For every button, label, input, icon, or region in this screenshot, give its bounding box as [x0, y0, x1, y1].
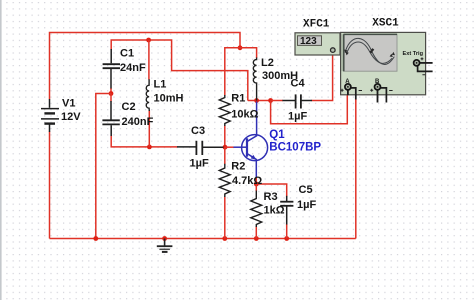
- svg-text:1µF: 1µF: [190, 158, 209, 170]
- XFC1 terminal: [331, 48, 336, 53]
- wire: base node down to R2 top: [224, 147, 226, 164]
- svg-text:Q1: Q1: [269, 129, 285, 141]
- svg-text:XSC1: XSC1: [372, 18, 399, 30]
- wire: Vcc junction to R1 top: [225, 48, 240, 96]
- node: C4 tap junction: [268, 98, 273, 103]
- svg-text:C1: C1: [120, 48, 134, 60]
- XSC1 ext trig plus/minus marks: [421, 57, 426, 74]
- node: C5 at rail: [284, 236, 289, 241]
- svg-text:24nF: 24nF: [120, 62, 146, 74]
- wire: battery positive up to Vcc top rail and down to junction: [50, 33, 241, 100]
- svg-text:4.7kΩ: 4.7kΩ: [232, 175, 262, 187]
- wire: battery negative to rail: [49, 132, 51, 239]
- wire: tap junction to ground rail: [96, 94, 111, 239]
- XSC1 terminal A pin stub: [347, 89, 349, 95]
- node: base junction: [223, 145, 228, 150]
- XSC1 terminal B pin stub: [377, 89, 379, 103]
- XSC1 screen: [344, 34, 397, 71]
- svg-text:R3: R3: [264, 191, 278, 203]
- svg-text:C3: C3: [191, 125, 205, 137]
- wire: ground rail: [50, 238, 356, 240]
- capacitor C3: [177, 141, 224, 155]
- XSC1 waveform trace A: [345, 38, 394, 64]
- svg-text:C4: C4: [291, 78, 306, 90]
- wire: collector tap down and right to scope input A: [271, 94, 348, 124]
- inductor L1: [146, 79, 149, 111]
- node: ground symbol at rail: [162, 236, 167, 241]
- svg-text:V1: V1: [62, 97, 75, 109]
- resistor R3: [251, 191, 262, 228]
- inductor L2: [253, 58, 256, 101]
- capacitor C1: [103, 49, 120, 89]
- svg-text:BC107BP: BC107BP: [269, 142, 321, 154]
- svg-text:L2: L2: [261, 57, 274, 69]
- svg-text:10kΩ: 10kΩ: [231, 109, 258, 121]
- XSC1 terminal A negative hook: [349, 88, 356, 100]
- capacitor C4: [282, 94, 312, 108]
- node: emitter junction: [254, 182, 259, 187]
- XFC1 display: [298, 36, 322, 46]
- XSC1 screen left bevel: [341, 34, 343, 71]
- wire: emitter pin to emitter node: [255, 177, 257, 184]
- wire: Vcc junction to L2 top: [240, 48, 257, 58]
- wire: C4 right to XFC1 terminal: [312, 52, 333, 100]
- XSC1 terminal A: [345, 84, 351, 90]
- node: C1/C2 tap junction: [109, 91, 114, 96]
- XSC1 ext trig negative hook: [418, 64, 433, 71]
- resistor R2: [219, 164, 230, 197]
- wire: C4 left lead red part: [271, 100, 283, 102]
- wire: R2 bottom to rail: [224, 197, 226, 239]
- svg-text:240nF: 240nF: [122, 116, 154, 128]
- wire: collector node horizontal: [248, 100, 271, 102]
- node: Vcc split junction: [238, 45, 243, 50]
- svg-text:R2: R2: [231, 161, 245, 173]
- node: collector / L2 bottom junction: [254, 98, 259, 103]
- XSC1 terminal B: [375, 84, 381, 90]
- svg-text:12V: 12V: [61, 111, 81, 123]
- capacitor C2: [102, 101, 119, 136]
- XSC1 terminal B negative hook: [379, 88, 387, 103]
- wire: emitter node over to C5 top: [256, 184, 286, 197]
- ground: [157, 239, 173, 252]
- svg-text:R1: R1: [231, 93, 245, 105]
- resistor R1: [219, 95, 230, 126]
- frequency counter XFC1 box: [295, 33, 340, 55]
- wire: R1 bottom to base node: [224, 126, 226, 148]
- svg-text:L1: L1: [154, 79, 167, 91]
- XSC1 waveform trace B: [346, 42, 392, 63]
- wire: C5 bottom to rail: [286, 224, 288, 239]
- emitter arrow of Q1: [251, 155, 257, 160]
- svg-text:Ext Trig: Ext Trig: [403, 51, 424, 57]
- wire: C2 top stub: [110, 94, 112, 102]
- transistor Q1 (selected, blue): [233, 102, 267, 178]
- svg-text:C2: C2: [122, 101, 136, 113]
- svg-text:XFC1: XFC1: [303, 19, 330, 31]
- wire: C1 bottom to tap junction: [110, 88, 112, 94]
- wire: base node to transistor pin: [225, 146, 234, 148]
- svg-text:1µF: 1µF: [297, 199, 316, 211]
- svg-text:123: 123: [300, 36, 317, 47]
- wire: R3 bottom to rail: [255, 227, 257, 239]
- node: L1 top junction: [146, 38, 151, 43]
- node: R3 at rail: [254, 236, 259, 241]
- battery V1: [41, 99, 59, 132]
- svg-text:C5: C5: [299, 184, 313, 196]
- node: R2 at rail: [222, 236, 227, 241]
- oscilloscope XSC1 box: [341, 32, 426, 94]
- XSC1 terminal A plus/minus marks: [341, 89, 362, 92]
- wire: emitter node to R3 top: [255, 184, 257, 191]
- waveform arrow marks: [344, 48, 395, 57]
- XSC1 terminal B plus/minus marks: [370, 89, 392, 92]
- wire: tank top (C1 top, L1 top) over to collector node: [111, 40, 248, 101]
- node: tap at rail: [93, 236, 98, 241]
- capacitor C5: [280, 196, 293, 225]
- svg-text:1kΩ: 1kΩ: [264, 205, 285, 217]
- node: L1 bottom junction: [147, 145, 152, 150]
- svg-text:1µF: 1µF: [288, 111, 307, 123]
- wire: scope A negative down to ground rail: [355, 99, 357, 239]
- XSC1 ext trig terminal: [414, 60, 420, 66]
- wire: L1 bottom lead: [148, 111, 150, 147]
- svg-text:10mH: 10mH: [154, 93, 184, 105]
- XSC1 ext trig pin stub: [418, 62, 433, 64]
- wire: C2 bottom across to C3 left: [111, 136, 177, 147]
- wire: L1 top lead: [148, 40, 150, 80]
